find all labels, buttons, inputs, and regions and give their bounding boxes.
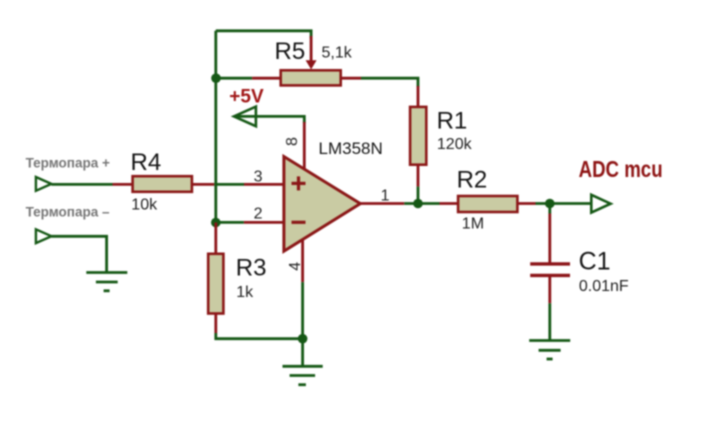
resistor R5 wiper arrow	[306, 36, 317, 69]
capacitor C1	[530, 264, 570, 276]
terminal output ADC	[591, 195, 610, 213]
resistor R4 body	[133, 176, 192, 192]
svg-text:R3: R3	[236, 255, 267, 282]
wire input1 to R4	[51, 183, 112, 186]
node B junction dot at pin2	[211, 218, 221, 228]
resistor R3 body	[208, 254, 223, 314]
svg-text:0.01nF: 0.01nF	[579, 278, 629, 295]
svg-text:R2: R2	[457, 167, 488, 194]
resistor R5 body	[281, 70, 341, 85]
wire R4 right pin to op-amp pin 3	[191, 183, 214, 186]
wire left vertical from top rail down through pin3 crossing to node at pin2	[214, 31, 217, 226]
wire op-amp pin 4 down to ground node	[301, 240, 304, 283]
wire R1 bottom to output node	[417, 165, 420, 187]
svg-text:1: 1	[381, 187, 390, 204]
resistor R2 body	[458, 196, 517, 212]
node C junction dot at pin4/R3	[298, 334, 308, 344]
svg-text:ADC mcu: ADC mcu	[579, 156, 663, 182]
svg-text:Термопара –: Термопара –	[26, 204, 110, 219]
node A junction dot at R5 left	[211, 73, 221, 83]
ground (op-amp)	[283, 366, 323, 384]
ground (C1)	[529, 341, 570, 360]
wire node E down to C1	[548, 204, 551, 214]
wire top rail from left vertical to R5 wiper	[216, 31, 311, 39]
svg-text:1M: 1M	[462, 215, 484, 232]
op-amp minus marking	[292, 221, 306, 224]
wire input2 to ground	[51, 236, 106, 272]
wire from power arrow to op-amp pin 8	[235, 116, 305, 123]
svg-text:Термопара +: Термопара +	[26, 155, 110, 170]
power arrow symbol	[234, 107, 256, 127]
svg-text:C1: C1	[579, 247, 611, 275]
wire to R2	[440, 202, 460, 205]
svg-text:2: 2	[254, 205, 263, 222]
svg-text:R5: R5	[275, 38, 306, 65]
svg-text:LM358N: LM358N	[319, 139, 383, 158]
svg-text:5,1k: 5,1k	[322, 45, 353, 62]
svg-text:120k: 120k	[437, 136, 473, 153]
svg-text:+5V: +5V	[229, 86, 264, 107]
svg-text:10k: 10k	[131, 197, 158, 214]
wire node to op-amp pin 2	[216, 221, 244, 224]
wire R3 bottom to op-amp ground node	[214, 313, 217, 333]
node D junction dot at output	[413, 199, 423, 209]
wire R5 right pin to corner down to R1	[340, 77, 361, 80]
wire R2 right to node E	[517, 202, 536, 205]
svg-text:4: 4	[287, 262, 304, 271]
terminal input 1	[36, 177, 52, 191]
resistor R1 body	[410, 107, 426, 165]
svg-text:8: 8	[284, 137, 301, 146]
svg-text:1k: 1k	[236, 284, 254, 301]
wire R5 left pin row from node to R5	[216, 77, 252, 80]
op-amp U1 body	[284, 157, 360, 252]
node E junction dot at C1	[545, 199, 555, 209]
svg-text:3: 3	[254, 169, 263, 186]
op-amp plus marking	[292, 176, 306, 190]
terminal input 2	[36, 229, 52, 243]
svg-text:R4: R4	[131, 149, 162, 176]
wire op-amp output pin 1	[360, 202, 404, 205]
wire node B down to R3	[214, 223, 217, 255]
ground (input 2)	[86, 273, 127, 291]
svg-text:R1: R1	[437, 107, 468, 134]
wire C1 bottom to ground	[548, 277, 551, 303]
